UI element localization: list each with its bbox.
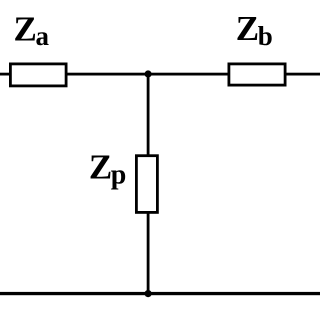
- svg-text:Z: Z: [236, 9, 259, 48]
- wire bottom rail: [0, 292, 320, 295]
- svg-text:a: a: [36, 21, 50, 51]
- svg-text:p: p: [111, 160, 127, 191]
- node junction dot top: [145, 70, 152, 77]
- svg-text:Z: Z: [14, 10, 37, 49]
- impedance Za: [10, 64, 66, 86]
- wire top rail: [0, 73, 320, 76]
- impedance Zp: [136, 156, 157, 213]
- wire shunt vertical: [147, 74, 150, 294]
- impedance Zb: [229, 64, 285, 85]
- svg-text:b: b: [258, 21, 273, 51]
- node junction dot bottom: [145, 290, 152, 297]
- svg-text:Z: Z: [89, 148, 112, 187]
